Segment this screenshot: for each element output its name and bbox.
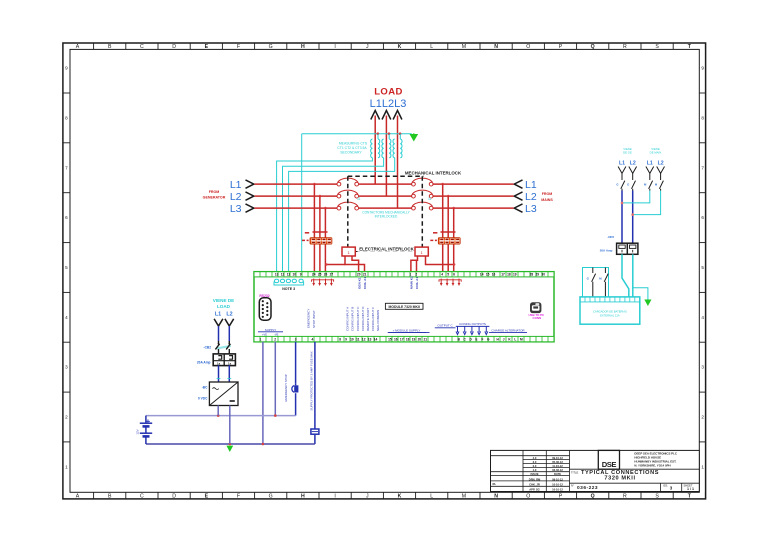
svg-text:M: M — [462, 493, 466, 499]
svg-text:18: 18 — [406, 338, 410, 342]
svg-text:3: 3 — [701, 365, 704, 370]
svg-text:1.0: 1.0 — [533, 468, 537, 472]
wire generator bus L2 — [255, 195, 338, 197]
svg-text:8: 8 — [701, 115, 704, 120]
wire generator sensing drop L2 — [319, 196, 321, 272]
svg-text:R: R — [623, 44, 627, 50]
svg-text:O: O — [526, 44, 530, 50]
svg-text:NEG COMMON: NEG COMMON — [376, 310, 380, 331]
svg-text:15: 15 — [486, 273, 490, 277]
jumper relay output arrows — [456, 326, 490, 334]
text interlock note cyan — [362, 211, 410, 219]
border frame inner — [70, 49, 699, 492]
wire K2 coil lead A — [411, 256, 418, 272]
svg-text:-CB2: -CB2 — [204, 346, 212, 350]
svg-text:COIL A1: COIL A1 — [363, 277, 367, 289]
svg-text:6: 6 — [701, 215, 704, 220]
svg-text:TITLE: TITLE — [571, 471, 579, 475]
svg-text:27: 27 — [330, 273, 334, 277]
text FROM GENERATOR — [203, 190, 226, 200]
connector dashed arrow generator block — [302, 239, 309, 241]
svg-text:CONFIG INPUT A: CONFIG INPUT A — [346, 307, 350, 331]
svg-text:11: 11 — [357, 197, 361, 201]
svg-text:MAINS: MAINS — [541, 198, 553, 202]
svg-text:11: 11 — [356, 338, 360, 342]
svg-text:3.0: 3.0 — [533, 460, 537, 464]
svg-text:18: 18 — [507, 273, 511, 277]
wire mechanical interlock dashed right — [421, 176, 423, 247]
switch aux isolator 0 — [621, 173, 625, 190]
svg-text:24: 24 — [312, 273, 316, 277]
svg-text:ISSUE: ISSUE — [530, 472, 538, 476]
svg-text:12: 12 — [281, 273, 285, 277]
svg-text:L1: L1 — [619, 161, 625, 167]
svg-text:5: 5 — [701, 265, 704, 270]
svg-text:L2: L2 — [525, 191, 537, 203]
wire mains block bar — [441, 231, 456, 233]
svg-text:G: G — [269, 493, 273, 499]
svg-text:20: 20 — [357, 273, 361, 277]
text ELECTRICAL INTERLOCK — [358, 246, 416, 252]
svg-text:1a: 1a — [217, 362, 221, 366]
jumper CT shorting links NOTE 3 — [275, 279, 279, 282]
svg-text:3: 3 — [65, 365, 68, 370]
svg-text:MAIN K2: MAIN K2 — [409, 276, 413, 289]
svg-text:D: D — [172, 44, 176, 50]
svg-text:E: E — [475, 338, 477, 342]
svg-text:7: 7 — [701, 165, 704, 170]
wire CT1 secondary return — [277, 158, 373, 272]
wire charger DC positive — [217, 406, 219, 416]
wire aux mains L2 link — [633, 191, 661, 215]
svg-text:SUPPLY: SUPPLY — [265, 328, 277, 332]
svg-text:CONFIG INPUT C: CONFIG INPUT C — [356, 306, 360, 331]
wire aux fuse out 1 — [622, 254, 629, 297]
switch aux isolator 2 — [649, 173, 653, 190]
connector chevron generator L1 — [246, 180, 254, 188]
node generator sensing tap L3 — [324, 207, 327, 210]
switch aux isolator 3 — [659, 173, 663, 190]
svg-text:L2: L2 — [630, 161, 636, 167]
svg-text:R: R — [623, 493, 627, 499]
svg-text:M: M — [462, 44, 466, 50]
wire K1 coil lead B — [352, 256, 359, 272]
wire CT common down to module terminal — [301, 134, 303, 272]
svg-text:CONFIG INPUT F: CONFIG INPUT F — [371, 307, 375, 331]
wire mains bus L3 — [432, 207, 513, 209]
wire breaker tie bar — [217, 346, 231, 349]
current transformer CT1 — [371, 139, 373, 158]
ground arrow battery negative earth — [226, 446, 233, 452]
svg-text:VIENE DE: VIENE DE — [213, 298, 234, 303]
node mains sensing tap L1 — [441, 183, 444, 186]
svg-text:14: 14 — [480, 273, 484, 277]
wire DC positive bus — [146, 415, 296, 417]
wire aux earth branch — [633, 288, 648, 300]
svg-text:GEN K1: GEN K1 — [357, 277, 361, 289]
svg-text:4: 4 — [312, 338, 314, 342]
svg-text:EMERGENCY STOP: EMERGENCY STOP — [284, 374, 288, 401]
connector chevron mains L1 — [514, 180, 522, 188]
contactor K2 (mains) pole L2 — [412, 194, 416, 198]
svg-text:MECHANICAL INTERLOCK: MECHANICAL INTERLOCK — [405, 170, 462, 175]
svg-text:L1: L1 — [230, 179, 242, 191]
svg-text:C: C — [140, 44, 144, 50]
node generator sensing tap L1 — [313, 183, 316, 186]
wire emergency stop to positive bus — [295, 393, 297, 415]
svg-text:OUTPUT C: OUTPUT C — [437, 324, 453, 328]
coil K1 generator contactor coil — [342, 247, 355, 256]
text VIENE DE MAINS cyan — [650, 147, 662, 154]
svg-text:09-10-12: 09-10-12 — [552, 456, 563, 460]
svg-text:8: 8 — [339, 338, 341, 342]
connector arrow aux feed 3 — [657, 167, 665, 174]
svg-text:28: 28 — [530, 273, 534, 277]
svg-text:FROM: FROM — [542, 192, 553, 196]
switch aux M contact — [604, 268, 608, 297]
wire mains sensing drop L2 — [447, 196, 449, 272]
contactor K2 (mains) pole L3 — [412, 206, 416, 210]
svg-text:E: E — [205, 44, 209, 50]
op external battery charger box — [580, 297, 640, 324]
svg-text:N: N — [494, 44, 498, 50]
ruler row ticks right — [699, 93, 705, 442]
svg-text:LOAD: LOAD — [374, 87, 403, 98]
title block outline — [491, 450, 700, 491]
svg-text:4: 4 — [441, 273, 443, 277]
svg-text:11: 11 — [287, 273, 291, 277]
svg-text:9: 9 — [701, 66, 704, 71]
svg-text:10-10-12: 10-10-12 — [552, 483, 563, 487]
svg-text:CONFIG OUTPUTS: CONFIG OUTPUTS — [459, 322, 486, 326]
ground arrow aux charger earth — [644, 300, 651, 307]
svg-text:LOAD: LOAD — [217, 304, 231, 309]
switch aux G contact — [592, 268, 596, 297]
converter battery charger BC1 — [209, 382, 238, 406]
svg-text:CHK. JR: CHK. JR — [529, 483, 540, 487]
svg-text:N°: N° — [571, 483, 574, 487]
svg-text:DRN. RM: DRN. RM — [529, 477, 541, 481]
coil K2 mains contactor coil — [415, 247, 428, 256]
svg-text:L2: L2 — [658, 161, 664, 167]
svg-text:L2: L2 — [230, 191, 242, 203]
jumper generator sensing links — [312, 279, 333, 286]
svg-text:036-223: 036-223 — [577, 485, 598, 491]
svg-text:2: 2 — [274, 338, 276, 342]
wire mains sensing drop L1 — [442, 184, 444, 272]
svg-text:CONN: CONN — [533, 316, 542, 320]
svg-text:4: 4 — [701, 315, 704, 320]
wire fuse to negative bus — [314, 434, 316, 444]
node positive bus junction module — [274, 414, 277, 417]
svg-text:B: B — [108, 493, 112, 499]
wire generator sensing drop L1 — [313, 184, 315, 272]
svg-text:13: 13 — [368, 338, 372, 342]
wire generator bus L1 — [255, 183, 338, 185]
connector arrow load L2 — [382, 111, 391, 120]
svg-text:FROM: FROM — [209, 190, 220, 194]
svg-text:L: L — [430, 493, 433, 499]
ruler row ticks left — [63, 93, 70, 442]
svg-text:F: F — [237, 44, 240, 50]
svg-text:+ MODULE SUPPLY: + MODULE SUPPLY — [393, 328, 421, 332]
svg-text:L1: L1 — [647, 161, 653, 167]
svg-text:CONFIG INPUT D: CONFIG INPUT D — [361, 306, 365, 331]
svg-text:8: 8 — [65, 115, 68, 120]
svg-text:09-10-12: 09-10-12 — [552, 477, 563, 481]
wire aux gen L2 down — [632, 191, 634, 244]
contactor K1 (generator) pole L2 — [337, 194, 341, 198]
svg-text:J: J — [503, 338, 505, 342]
svg-text:2: 2 — [65, 415, 68, 420]
svg-text:10: 10 — [293, 273, 297, 277]
svg-text:Q: Q — [591, 44, 595, 50]
text VIENE DE LOAD cyan — [213, 298, 234, 309]
node CT1 secondary junction — [377, 132, 380, 135]
wire K1 coil lead A — [345, 256, 365, 272]
title block row line under logo — [570, 468, 700, 470]
node CT3 secondary junction — [399, 132, 402, 135]
svg-text:H: H — [301, 493, 305, 499]
svg-text:DE MAIN: DE MAIN — [650, 150, 662, 154]
ruler column ticks bottom — [94, 492, 706, 499]
svg-text:11-04-12: 11-04-12 — [552, 464, 563, 468]
svg-text:14: 14 — [374, 338, 378, 342]
node aux junction 2 — [631, 213, 634, 216]
fuse block charger AC — [213, 354, 235, 366]
svg-text:H: H — [301, 44, 305, 50]
terminal block mains sensing fuses — [438, 238, 460, 245]
svg-text:D: D — [172, 493, 176, 499]
svg-text:6: 6 — [453, 273, 455, 277]
svg-text:APP. SG: APP. SG — [529, 487, 540, 491]
wire K2 coil drop to terminal — [416, 260, 418, 272]
svg-text:EMERGENCY: EMERGENCY — [307, 309, 311, 328]
svg-text:I: I — [334, 493, 335, 499]
wire DC negative drop terminal 1 — [262, 342, 264, 444]
wire CT3 secondary return — [289, 158, 395, 272]
title block bottom row — [570, 482, 700, 484]
svg-text:DATE: DATE — [554, 472, 561, 476]
svg-text:-BC: -BC — [202, 385, 208, 389]
svg-text:05-06-12: 05-06-12 — [552, 460, 563, 464]
connector arrow aux feed 1 — [629, 167, 637, 174]
svg-text:2.0: 2.0 — [533, 464, 537, 468]
wire load bridge bus L2 — [359, 195, 413, 197]
svg-text:20A Amp: 20A Amp — [600, 248, 613, 252]
svg-text:N. YORKSHIRE, YO14 0PH: N. YORKSHIRE, YO14 0PH — [634, 464, 670, 468]
logo DSE box — [598, 450, 619, 469]
text external charger label — [593, 309, 627, 317]
wire load feeder L1 vertical — [374, 116, 376, 185]
svg-text:B: B — [108, 44, 112, 50]
connector arrow aux feed 2 — [646, 167, 654, 174]
svg-text:3: 3 — [295, 338, 297, 342]
node positive bus junction charger — [217, 414, 220, 417]
svg-text:G: G — [627, 183, 629, 187]
wire load feeder L2 vertical — [385, 116, 387, 197]
connector arrow charger L2 — [225, 319, 234, 326]
connector chevron mains L3 — [514, 204, 522, 212]
wire fused supply drop terminal 4 — [314, 342, 316, 429]
svg-text:K: K — [398, 493, 402, 499]
wire CT2 secondary return — [283, 158, 384, 272]
wire mains bus L1 — [432, 183, 513, 185]
svg-text:GENERATOR: GENERATOR — [203, 196, 226, 200]
text CT note cyan — [337, 142, 368, 155]
svg-text:1: 1 — [260, 338, 262, 342]
wire charger DC negative to earth bus — [229, 406, 231, 445]
svg-text:10: 10 — [350, 338, 354, 342]
svg-text:-NF6: -NF6 — [607, 235, 614, 239]
svg-text:CT1 CT2 & CT3 5A: CT1 CT2 & CT3 5A — [337, 146, 367, 150]
wire generator bus L3 — [255, 207, 338, 209]
svg-text:L1: L1 — [215, 312, 221, 318]
ruler column letters bottom — [76, 493, 692, 499]
svg-text:25: 25 — [318, 273, 322, 277]
svg-text:J: J — [366, 44, 369, 50]
svg-text:2: 2 — [415, 273, 417, 277]
svg-text:9: 9 — [345, 338, 347, 342]
svg-text:DE GE: DE GE — [623, 150, 632, 154]
svg-text:19: 19 — [513, 273, 517, 277]
wire K2 coil lead B — [426, 256, 455, 265]
svg-text:29: 29 — [536, 273, 540, 277]
svg-text:17: 17 — [501, 273, 505, 277]
svg-text:7: 7 — [65, 165, 68, 170]
svg-text:J: J — [366, 493, 369, 499]
svg-text:NOTE 3: NOTE 3 — [282, 287, 295, 291]
svg-text:G: G — [616, 183, 618, 187]
svg-text:9: 9 — [300, 273, 302, 277]
svg-text:10-10-12: 10-10-12 — [552, 487, 563, 491]
svg-text:-VE: -VE — [274, 332, 279, 336]
op module DSE7320 outline — [254, 272, 554, 342]
svg-text:7320 MKII: 7320 MKII — [604, 476, 635, 482]
svg-text:G: G — [269, 44, 273, 50]
node CT2 secondary junction — [388, 132, 391, 135]
svg-text:L: L — [514, 338, 516, 342]
ruler row numbers right — [701, 66, 704, 470]
svg-text:REMOTE START: REMOTE START — [366, 308, 370, 331]
text FROM MAINS — [541, 192, 553, 202]
battery BAT 12V — [145, 416, 147, 424]
svg-text:L1: L1 — [525, 179, 537, 191]
terminal block generator sensing fuses — [310, 238, 332, 245]
svg-text:CONFIG INPUT B: CONFIG INPUT B — [351, 307, 355, 331]
svg-text:SUPPLY PROTECTED BY 2 AMP FUSE: SUPPLY PROTECTED BY 2 AMP FUSE MAX — [309, 351, 313, 410]
svg-text:12V: 12V — [135, 429, 139, 434]
svg-text:1a: 1a — [228, 362, 232, 366]
svg-text:5: 5 — [447, 273, 449, 277]
svg-text:15: 15 — [388, 338, 392, 342]
svg-text:13: 13 — [275, 273, 279, 277]
terminal strip external charger — [580, 301, 640, 303]
switch emergency stop button — [294, 385, 298, 392]
svg-text:21: 21 — [363, 273, 367, 277]
wire electrical interlock dashed link — [355, 251, 415, 253]
svg-text:1: 1 — [701, 464, 704, 469]
connector arrow charger L1 — [214, 319, 223, 326]
breaker CB2 pole 1 — [215, 341, 219, 354]
wire K1 coil link to generator L3 — [327, 264, 346, 266]
svg-text:A: A — [76, 493, 80, 499]
wire aux mains L1 link — [622, 191, 650, 203]
node negative bus junction earth — [229, 443, 232, 446]
svg-text:MODULE 7320 MKII: MODULE 7320 MKII — [389, 305, 420, 309]
terminal strip module bottom terminals — [254, 336, 554, 341]
svg-text:17: 17 — [400, 338, 404, 342]
wire aux gen L1 down — [621, 191, 623, 244]
svg-text:+VE: +VE — [262, 332, 267, 336]
connector arrow load L3 — [393, 111, 402, 120]
current transformer CT2 — [382, 139, 384, 158]
connector chevron generator L2 — [246, 192, 254, 200]
wire load bridge bus L1 — [359, 183, 413, 185]
svg-text:16: 16 — [492, 273, 496, 277]
svg-text:MEASURING CTS: MEASURING CTS — [339, 142, 368, 146]
svg-text:A: A — [76, 44, 80, 50]
wire CT secondary common bus — [302, 133, 412, 135]
svg-text:9: 9 — [65, 66, 68, 71]
fuse F1 module supply — [311, 429, 319, 434]
title block rows left — [491, 456, 570, 487]
svg-text:C: C — [140, 493, 144, 499]
connector USB port — [530, 302, 541, 313]
connector dashed arrow mains block — [430, 239, 437, 241]
svg-text:E: E — [205, 493, 209, 499]
svg-text:20A Amp: 20A Amp — [197, 360, 211, 364]
svg-text:O: O — [526, 493, 530, 499]
ground arrow CT common earth — [410, 133, 417, 140]
wire charger AC L1 — [218, 326, 220, 341]
svg-text:5: 5 — [65, 265, 68, 270]
svg-text:21: 21 — [424, 338, 428, 342]
svg-text:I: I — [334, 44, 335, 50]
contactor K1 (generator) pole L1 — [337, 182, 341, 186]
svg-text:19: 19 — [412, 338, 416, 342]
svg-text:20: 20 — [418, 338, 422, 342]
title block columns — [523, 450, 570, 491]
svg-text:6: 6 — [65, 215, 68, 220]
border frame outer — [63, 43, 706, 499]
svg-text:12: 12 — [362, 338, 366, 342]
op module label MODULE 7320 MKII — [385, 303, 423, 309]
svg-text:1: 1 — [410, 273, 412, 277]
svg-text:CARGADOR DE BATERIAS: CARGADOR DE BATERIAS — [593, 309, 627, 313]
svg-text:M: M — [520, 338, 523, 342]
svg-text:0 VDC: 0 VDC — [198, 396, 208, 400]
svg-text:03-02-12: 03-02-12 — [552, 468, 563, 472]
svg-text:SECONDARY: SECONDARY — [340, 151, 362, 155]
svg-text:STOP INPUT: STOP INPUT — [312, 310, 316, 328]
svg-text:11: 11 — [428, 197, 432, 201]
connector chevron mains L2 — [514, 192, 522, 200]
wire mechanical interlock dashed left — [347, 176, 349, 247]
wire load bridge bus L3 — [359, 207, 413, 209]
svg-text:L3: L3 — [230, 203, 242, 215]
wire aux fuse out 2 — [632, 254, 634, 297]
svg-text:L1L2L3: L1L2L3 — [370, 98, 407, 110]
text DSE address — [634, 452, 677, 468]
wire DC negative bus — [146, 443, 315, 445]
current transformer CT3 — [393, 139, 395, 158]
node negative bus junction module — [262, 443, 265, 446]
connector arrow load L1 — [371, 111, 380, 120]
svg-text:16: 16 — [394, 338, 398, 342]
svg-text:EXTERNAL 12A: EXTERNAL 12A — [600, 314, 620, 318]
switch aux isolator 1 — [632, 173, 636, 190]
